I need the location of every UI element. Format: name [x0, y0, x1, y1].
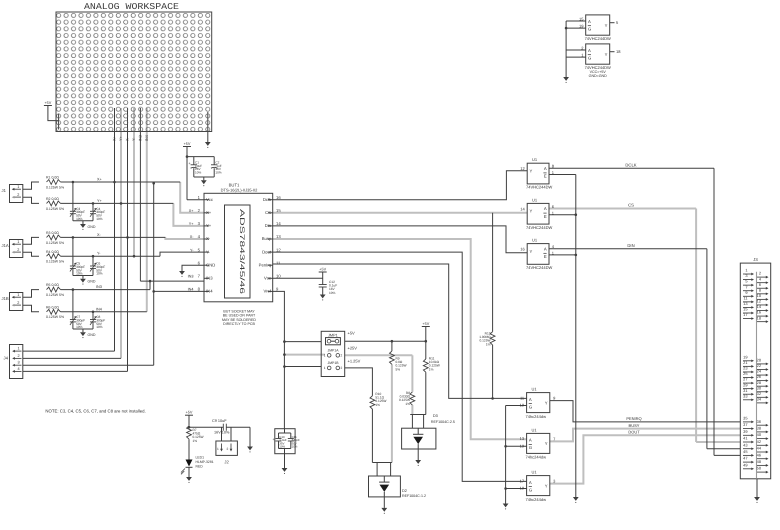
svg-text:19: 19 [743, 354, 747, 359]
svg-text:Din: Din [265, 223, 272, 228]
svg-text:Y: Y [530, 168, 533, 173]
svg-text:+5V: +5V [422, 322, 429, 326]
svg-text:CS: CS [265, 210, 271, 215]
svg-text:2: 2 [227, 447, 229, 451]
svg-text:REF1004C-2.5: REF1004C-2.5 [431, 420, 455, 424]
svg-text:X+: X+ [189, 209, 195, 213]
svg-text:10%: 10% [195, 171, 201, 175]
svg-text:10%: 10% [215, 171, 221, 175]
svg-text:1: 1 [17, 293, 19, 297]
svg-text:12: 12 [276, 247, 281, 252]
svg-text:A: A [544, 166, 547, 171]
svg-text:19: 19 [520, 403, 525, 408]
svg-text:GND: GND [87, 333, 95, 337]
svg-text:13: 13 [743, 301, 747, 306]
svg-text:27: 27 [743, 377, 747, 382]
svg-text:Y: Y [605, 23, 608, 28]
svg-text:IN4: IN4 [188, 288, 194, 292]
svg-text:2: 2 [341, 366, 343, 370]
svg-text:+1.25V: +1.25V [348, 359, 361, 364]
svg-text:1%: 1% [375, 403, 380, 407]
svg-text:7: 7 [745, 284, 747, 289]
svg-text:15: 15 [276, 208, 281, 213]
svg-text:+5V: +5V [348, 331, 356, 336]
svg-text:1: 1 [324, 366, 326, 370]
svg-text:6: 6 [759, 282, 761, 287]
svg-text:Vcc: Vcc [206, 197, 213, 202]
svg-text:E: E [544, 214, 547, 219]
svg-text:+5V: +5V [319, 267, 326, 271]
svg-text:JMP1B: JMP1B [328, 361, 340, 365]
svg-text:13: 13 [520, 436, 525, 441]
svg-text:3: 3 [745, 273, 747, 278]
svg-text:Vref: Vref [263, 289, 271, 294]
svg-text:C9 10uF: C9 10uF [212, 419, 227, 423]
svg-text:21: 21 [743, 360, 747, 365]
svg-text:LED1: LED1 [196, 456, 205, 460]
svg-text:38: 38 [757, 426, 761, 431]
svg-text:Dclk: Dclk [263, 197, 272, 202]
svg-text:18: 18 [757, 315, 761, 320]
svg-text:9: 9 [745, 290, 747, 295]
svg-text:12: 12 [520, 166, 525, 171]
svg-text:+5V: +5V [44, 101, 51, 105]
svg-text:Y: Y [545, 441, 548, 446]
svg-text:2: 2 [18, 354, 20, 358]
svg-text:28: 28 [757, 380, 761, 385]
svg-text:X-: X- [206, 236, 211, 241]
svg-text:J1: J1 [2, 188, 7, 193]
svg-text:PenIrq: PenIrq [259, 262, 272, 267]
svg-text:10%: 10% [76, 217, 83, 221]
svg-text:U1: U1 [532, 197, 538, 202]
svg-text:13: 13 [276, 234, 281, 239]
svg-text:J1A: J1A [2, 243, 9, 248]
svg-text:G: G [529, 404, 532, 409]
svg-text:2: 2 [17, 301, 19, 305]
svg-text:Busy: Busy [262, 236, 272, 241]
svg-text:74hc244dw: 74hc244dw [526, 414, 547, 419]
svg-text:GND=GND: GND=GND [589, 74, 607, 78]
svg-text:A: A [544, 206, 547, 211]
svg-text:5%: 5% [396, 367, 401, 371]
svg-text:IN4: IN4 [206, 289, 213, 294]
svg-text:14: 14 [520, 206, 525, 211]
svg-text:J1B: J1B [2, 296, 9, 301]
svg-text:42: 42 [757, 439, 761, 444]
svg-text:R2 0.0Ω: R2 0.0Ω [46, 197, 59, 201]
svg-text:8: 8 [759, 287, 761, 292]
svg-text:35: 35 [743, 416, 747, 421]
svg-text:J4: J4 [4, 356, 9, 361]
svg-text:IN4: IN4 [96, 307, 102, 311]
svg-text:1%: 1% [429, 367, 434, 371]
svg-text:31: 31 [743, 388, 747, 393]
svg-text:74VHC244DW: 74VHC244DW [526, 265, 552, 270]
svg-text:10%: 10% [279, 445, 285, 449]
svg-text:D3: D3 [433, 414, 438, 418]
svg-text:19: 19 [520, 486, 525, 491]
svg-text:0.125W 5%: 0.125W 5% [46, 207, 64, 211]
svg-text:IN3: IN3 [188, 275, 194, 279]
svg-text:Y+: Y+ [97, 199, 103, 203]
svg-text:2: 2 [341, 354, 343, 358]
svg-text:1: 1 [745, 268, 747, 273]
svg-text:0.125W 5%: 0.125W 5% [46, 185, 64, 189]
svg-text:10%: 10% [329, 291, 336, 295]
svg-text:1: 1 [18, 347, 20, 351]
svg-text:A: A [529, 397, 532, 402]
svg-text:Y: Y [545, 483, 548, 488]
svg-text:JMP1A: JMP1A [328, 349, 340, 353]
svg-text:U1: U1 [532, 157, 538, 162]
svg-text:0.125W 5%: 0.125W 5% [46, 241, 64, 245]
svg-text:A: A [588, 19, 591, 24]
svg-text:18: 18 [616, 49, 621, 54]
svg-text:10%: 10% [96, 325, 103, 329]
svg-text:74VHC244DW: 74VHC244DW [526, 185, 552, 190]
svg-text:0.125W 5%: 0.125W 5% [46, 260, 64, 264]
svg-text:15: 15 [743, 307, 747, 312]
svg-text:10: 10 [276, 274, 281, 279]
svg-text:3: 3 [18, 361, 20, 365]
svg-text:X+: X+ [206, 210, 212, 215]
svg-text:1%: 1% [486, 342, 491, 346]
svg-text:IN3: IN3 [96, 285, 102, 289]
svg-text:11: 11 [276, 260, 281, 265]
svg-text:R5 0.0Ω: R5 0.0Ω [46, 283, 59, 287]
svg-text:16: 16 [757, 310, 761, 315]
svg-text:1: 1 [217, 447, 219, 451]
svg-text:74hc244dw: 74hc244dw [526, 455, 547, 460]
svg-text:Y: Y [530, 209, 533, 214]
svg-text:2: 2 [17, 193, 19, 197]
svg-text:33: 33 [743, 393, 747, 398]
svg-text:R1 0.0Ω: R1 0.0Ω [46, 176, 59, 180]
svg-text:GND: GND [206, 262, 215, 267]
svg-text:+5V: +5V [184, 142, 191, 146]
svg-text:23: 23 [743, 366, 747, 371]
svg-text:74hc244dw: 74hc244dw [526, 497, 547, 502]
svg-text:REF1004C-1.2: REF1004C-1.2 [402, 494, 426, 498]
svg-text:E: E [544, 174, 547, 179]
svg-text:ANALOG WORKSPACE: ANALOG WORKSPACE [84, 2, 179, 12]
svg-text:U1: U1 [531, 470, 537, 475]
svg-text:10%: 10% [76, 272, 83, 276]
svg-text:1: 1 [324, 354, 326, 358]
svg-text:10%: 10% [292, 445, 298, 449]
svg-text:G: G [529, 487, 532, 492]
svg-text:49: 49 [743, 462, 747, 467]
svg-text:10%: 10% [96, 217, 103, 221]
svg-text:DCLK: DCLK [625, 163, 636, 168]
svg-text:HLMP-3281: HLMP-3281 [196, 460, 214, 464]
svg-text:10%: 10% [76, 325, 83, 329]
svg-text:GND: GND [87, 280, 95, 284]
svg-text:U1: U1 [531, 427, 537, 432]
svg-text:Y+: Y+ [189, 222, 195, 226]
svg-text:10%: 10% [96, 272, 103, 276]
svg-text:R4 0.0Ω: R4 0.0Ω [46, 250, 59, 254]
svg-text:2: 2 [759, 271, 761, 276]
svg-text:32: 32 [757, 391, 761, 396]
svg-text:15: 15 [579, 16, 584, 21]
svg-text:19: 19 [520, 443, 525, 448]
svg-text:16V 10%: 16V 10% [214, 431, 230, 435]
svg-text:X+: X+ [113, 135, 117, 141]
svg-text:39: 39 [743, 429, 747, 434]
svg-text:NOTE: C3, C4, C5, C6, C7, and: NOTE: C3, C4, C5, C6, C7, and C8 are not… [45, 409, 145, 414]
svg-text:X+: X+ [97, 178, 103, 182]
svg-text:IN3: IN3 [206, 276, 213, 281]
svg-text:Vcc: Vcc [264, 276, 271, 281]
svg-text:ADS7843/45/46: ADS7843/45/46 [238, 209, 245, 295]
svg-text:16: 16 [276, 195, 281, 200]
svg-text:Y: Y [605, 52, 608, 57]
svg-text:R3 0.0Ω: R3 0.0Ω [46, 231, 59, 235]
svg-text:0.125W 5%: 0.125W 5% [46, 315, 64, 319]
svg-text:47: 47 [743, 456, 747, 461]
svg-text:Y+: Y+ [119, 135, 123, 141]
svg-text:G: G [588, 55, 591, 60]
svg-text:DOUT: DOUT [628, 430, 640, 435]
svg-text:1: 1 [17, 240, 19, 244]
svg-text:J2: J2 [224, 460, 229, 465]
svg-text:A: A [529, 480, 532, 485]
svg-text:PENIRQ: PENIRQ [626, 416, 641, 421]
svg-text:45: 45 [743, 449, 747, 454]
svg-text:11: 11 [743, 295, 747, 300]
svg-text:IN4: IN4 [145, 135, 149, 141]
svg-text:25: 25 [743, 371, 747, 376]
svg-text:19: 19 [579, 23, 584, 28]
svg-text:JMP1: JMP1 [328, 333, 338, 337]
svg-text:DIRECTLY TO PCB: DIRECTLY TO PCB [223, 322, 255, 326]
svg-text:G: G [529, 445, 532, 450]
svg-text:29: 29 [743, 382, 747, 387]
svg-text:16: 16 [520, 247, 525, 252]
svg-text:0.125W 5%: 0.125W 5% [46, 293, 64, 297]
svg-text:DTS-16(2L)-0J35-02: DTS-16(2L)-0J35-02 [221, 188, 258, 193]
svg-text:+: + [273, 438, 275, 442]
svg-text:Y-: Y- [206, 249, 210, 254]
svg-text:74VHC244DW: 74VHC244DW [585, 36, 611, 41]
svg-text:D2: D2 [402, 489, 407, 493]
svg-text:BUSY: BUSY [629, 423, 640, 428]
svg-text:G: G [588, 26, 591, 31]
svg-text:U1: U1 [532, 238, 538, 243]
svg-text:IN3: IN3 [139, 135, 143, 141]
svg-text:41: 41 [743, 436, 747, 441]
svg-text:26: 26 [757, 374, 761, 379]
svg-text:E: E [544, 254, 547, 259]
svg-text:22: 22 [757, 363, 761, 368]
svg-text:4: 4 [18, 367, 20, 371]
svg-text:+: + [189, 161, 191, 165]
svg-text:A: A [529, 438, 532, 443]
svg-text:A: A [544, 246, 547, 251]
svg-text:CS: CS [628, 203, 634, 208]
svg-text:RED: RED [196, 465, 204, 469]
svg-text:46: 46 [757, 452, 761, 457]
svg-text:J3: J3 [753, 257, 758, 262]
svg-text:Y+: Y+ [206, 223, 212, 228]
svg-text:1%: 1% [193, 439, 198, 443]
svg-text:1%: 1% [405, 402, 410, 406]
svg-text:74VHC244DW: 74VHC244DW [526, 225, 552, 230]
svg-text:+5V: +5V [186, 411, 193, 415]
svg-text:48: 48 [757, 459, 761, 464]
svg-text:GND: GND [87, 225, 95, 229]
svg-text:37: 37 [743, 422, 747, 427]
svg-text:R6 0.0Ω: R6 0.0Ω [46, 305, 59, 309]
svg-text:Y: Y [545, 400, 548, 405]
svg-text:DIN: DIN [627, 243, 634, 248]
svg-text:Y: Y [530, 249, 533, 254]
svg-text:1: 1 [17, 185, 19, 189]
svg-text:14: 14 [276, 221, 281, 226]
svg-text:43: 43 [743, 442, 747, 447]
svg-text:Dout: Dout [262, 249, 272, 254]
svg-text:2: 2 [17, 248, 19, 252]
svg-text:A: A [588, 48, 591, 53]
svg-text:U1: U1 [531, 387, 537, 392]
svg-text:17: 17 [520, 478, 525, 483]
svg-text:+25V: +25V [348, 346, 358, 351]
svg-text:5: 5 [745, 279, 747, 284]
svg-text:17: 17 [743, 312, 747, 317]
svg-text:12: 12 [757, 299, 761, 304]
svg-text:36: 36 [757, 419, 761, 424]
